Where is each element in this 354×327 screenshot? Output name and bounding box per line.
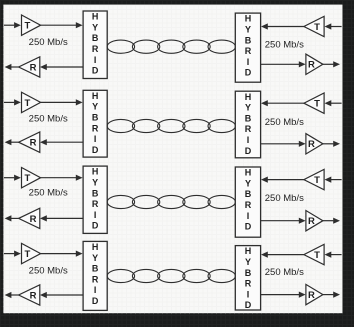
svg-text:H: H: [92, 12, 99, 22]
svg-text:Y: Y: [245, 25, 251, 35]
wire W1B: T1L output to left hybrid: [41, 22, 83, 28]
svg-text:R: R: [30, 138, 37, 149]
wire W4C: left hybrid to receive amp R4L: [40, 292, 83, 298]
svg-text:D: D: [92, 221, 99, 231]
amplifier R4R (right receiver): [306, 284, 323, 304]
wire W2D: R2L output to left edge: [5, 139, 19, 145]
svg-text:B: B: [245, 113, 252, 123]
wire W4D: R4L output to left edge: [5, 292, 19, 298]
wire W3B: T3L output to left hybrid: [41, 175, 83, 181]
hybrid transformer U2R (right HYBRID box): [235, 91, 260, 158]
svg-text:R: R: [92, 44, 99, 54]
wire W4E: right input to transmit amp T4R: [325, 252, 342, 258]
amplifier T2R (right transmitter): [304, 93, 324, 113]
svg-text:I: I: [94, 55, 97, 65]
svg-text:H: H: [92, 242, 99, 252]
wire W1H: R1R output to right edge: [323, 61, 340, 67]
svg-text:I: I: [94, 285, 97, 295]
wire W3D: R3L output to left edge: [5, 215, 19, 221]
svg-text:D: D: [245, 222, 252, 232]
wire W2H: R2R output to right edge: [323, 141, 340, 147]
amplifier T1L (left transmitter): [22, 15, 41, 35]
svg-text:T: T: [24, 21, 30, 32]
amplifier R1R (right receiver): [306, 54, 323, 74]
svg-text:I: I: [247, 211, 250, 221]
wire W3A: left input to transmit amp T3L: [4, 175, 21, 181]
svg-text:T: T: [314, 99, 320, 110]
svg-text:D: D: [92, 145, 99, 155]
svg-text:B: B: [92, 113, 99, 123]
wire W1F: T1R output to right hybrid: [261, 23, 304, 29]
twisted-pair cable TP3 between hybrids: [107, 195, 235, 208]
svg-text:B: B: [92, 33, 99, 43]
wire W4B: T4L output to left hybrid: [41, 251, 83, 257]
amplifier R4L (left receiver): [19, 285, 40, 305]
svg-text:R: R: [92, 123, 99, 133]
svg-text:R: R: [245, 124, 252, 134]
wire W3G: right hybrid to receive amp R3R: [261, 218, 306, 224]
svg-text:B: B: [92, 264, 99, 274]
svg-text:I: I: [247, 289, 250, 299]
svg-text:R: R: [308, 60, 315, 71]
amplifier T3L (left transmitter): [22, 168, 41, 188]
wire W1G: right hybrid to receive amp R1R: [261, 61, 306, 67]
wire W1E: right input to transmit amp T1R: [325, 23, 342, 29]
svg-text:R: R: [92, 274, 99, 284]
wire W2E: right input to transmit amp T2R: [325, 100, 342, 106]
svg-text:250 Mb/s: 250 Mb/s: [265, 267, 304, 278]
svg-text:Y: Y: [245, 178, 251, 188]
svg-text:R: R: [245, 46, 252, 56]
svg-text:Y: Y: [92, 102, 98, 112]
svg-text:T: T: [314, 250, 320, 261]
svg-text:D: D: [92, 66, 99, 76]
svg-text:H: H: [245, 92, 252, 102]
svg-text:I: I: [94, 134, 97, 144]
svg-text:B: B: [92, 188, 99, 198]
svg-text:R: R: [308, 290, 315, 301]
amplifier T2L (left transmitter): [22, 92, 41, 112]
amplifier R3L (left receiver): [19, 208, 40, 228]
svg-text:Y: Y: [245, 257, 251, 267]
svg-text:250 Mb/s: 250 Mb/s: [29, 114, 68, 125]
svg-text:250 Mb/s: 250 Mb/s: [29, 37, 68, 48]
wire W2A: left input to transmit amp T2L: [4, 99, 21, 105]
svg-text:T: T: [24, 98, 30, 109]
wire W4A: left input to transmit amp T4L: [4, 251, 21, 257]
wire W4H: R4R output to right edge: [323, 292, 340, 298]
wire W1A: left input to transmit amp T1L: [4, 22, 21, 28]
wire W4F: T4R output to right hybrid: [261, 252, 304, 258]
wire W2B: T2L output to left hybrid: [41, 99, 83, 105]
amplifier T3R (right transmitter): [304, 169, 324, 189]
svg-text:R: R: [308, 216, 315, 227]
svg-text:R: R: [245, 279, 252, 289]
amplifier R3R (right receiver): [306, 211, 323, 231]
svg-text:250 Mb/s: 250 Mb/s: [29, 188, 68, 199]
svg-text:R: R: [30, 290, 37, 301]
svg-text:D: D: [92, 296, 99, 306]
svg-text:H: H: [92, 91, 99, 101]
twisted-pair cable TP4 between hybrids: [107, 269, 235, 282]
wire W3E: right input to transmit amp T3R: [325, 177, 342, 183]
hybrid transformer U2L (left HYBRID box): [83, 90, 107, 157]
svg-text:Y: Y: [245, 103, 251, 113]
amplifier T4R (right transmitter): [304, 244, 324, 264]
svg-text:R: R: [308, 139, 315, 150]
wire W2C: left hybrid to receive amp R2L: [40, 139, 83, 145]
wire W3F: T3R output to right hybrid: [261, 177, 304, 183]
svg-text:R: R: [245, 200, 252, 210]
svg-text:I: I: [247, 57, 250, 67]
twisted-pair cable TP2 between hybrids: [107, 119, 235, 132]
svg-text:B: B: [245, 189, 252, 199]
svg-text:B: B: [245, 268, 252, 278]
hybrid transformer U1R (right HYBRID box): [235, 13, 260, 82]
amplifier R2L (left receiver): [19, 132, 40, 152]
svg-text:D: D: [245, 68, 252, 78]
svg-text:D: D: [245, 146, 252, 156]
svg-text:I: I: [94, 210, 97, 220]
amplifier R1L (left receiver): [19, 57, 40, 77]
svg-text:H: H: [245, 14, 252, 24]
wire W1C: left hybrid to receive amp R1L: [40, 64, 83, 70]
amplifier R2R (right receiver): [306, 134, 323, 154]
wire W2F: T2R output to right hybrid: [261, 100, 304, 106]
hybrid transformer U3R (right HYBRID box): [235, 167, 260, 237]
svg-text:250 Mb/s: 250 Mb/s: [265, 40, 304, 51]
svg-text:H: H: [92, 167, 99, 177]
svg-text:H: H: [245, 246, 252, 256]
wire W1D: R1L output to left edge: [5, 64, 19, 70]
svg-text:250 Mb/s: 250 Mb/s: [265, 193, 304, 204]
wire W2G: right hybrid to receive amp R2R: [261, 141, 306, 147]
hybrid transformer U1L (left HYBRID box): [83, 11, 107, 79]
svg-text:250 Mb/s: 250 Mb/s: [29, 266, 68, 277]
svg-text:T: T: [314, 175, 320, 186]
svg-text:B: B: [245, 35, 252, 45]
wire W3C: left hybrid to receive amp R3L: [40, 215, 83, 221]
svg-text:T: T: [24, 173, 30, 184]
svg-text:Y: Y: [92, 22, 98, 32]
svg-text:Y: Y: [92, 253, 98, 263]
svg-text:250 Mb/s: 250 Mb/s: [265, 117, 304, 128]
hybrid transformer U4R (right HYBRID box): [235, 246, 260, 311]
svg-text:R: R: [92, 199, 99, 209]
wire W3H: R3R output to right edge: [323, 218, 340, 224]
hybrid transformer U4L (left HYBRID box): [83, 241, 107, 310]
svg-text:R: R: [30, 62, 37, 73]
svg-text:T: T: [314, 22, 320, 33]
twisted-pair cable TP1 between hybrids: [107, 40, 235, 53]
svg-text:D: D: [245, 300, 252, 310]
wire W4G: right hybrid to receive amp R4R: [261, 292, 306, 298]
amplifier T1R (right transmitter): [304, 16, 324, 36]
amplifier T4L (left transmitter): [22, 243, 41, 263]
svg-text:Y: Y: [92, 178, 98, 188]
svg-text:H: H: [245, 168, 252, 178]
svg-text:T: T: [24, 249, 30, 260]
hybrid transformer U3L (left HYBRID box): [83, 166, 107, 233]
svg-text:R: R: [30, 214, 37, 225]
svg-text:I: I: [247, 135, 250, 145]
